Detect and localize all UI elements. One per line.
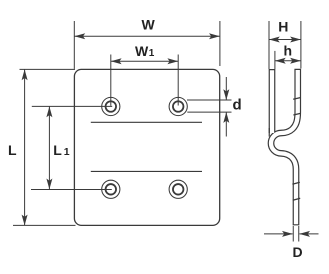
svg-text:d: d (233, 97, 242, 114)
svg-text:1: 1 (149, 48, 155, 59)
svg-text:H: H (278, 19, 288, 35)
svg-text:1: 1 (64, 146, 70, 158)
svg-text:D: D (293, 244, 303, 260)
svg-text:L: L (8, 142, 17, 158)
svg-text:W: W (142, 17, 156, 33)
svg-text:W: W (135, 43, 149, 59)
svg-text:h: h (284, 43, 293, 59)
svg-text:L: L (53, 142, 62, 158)
